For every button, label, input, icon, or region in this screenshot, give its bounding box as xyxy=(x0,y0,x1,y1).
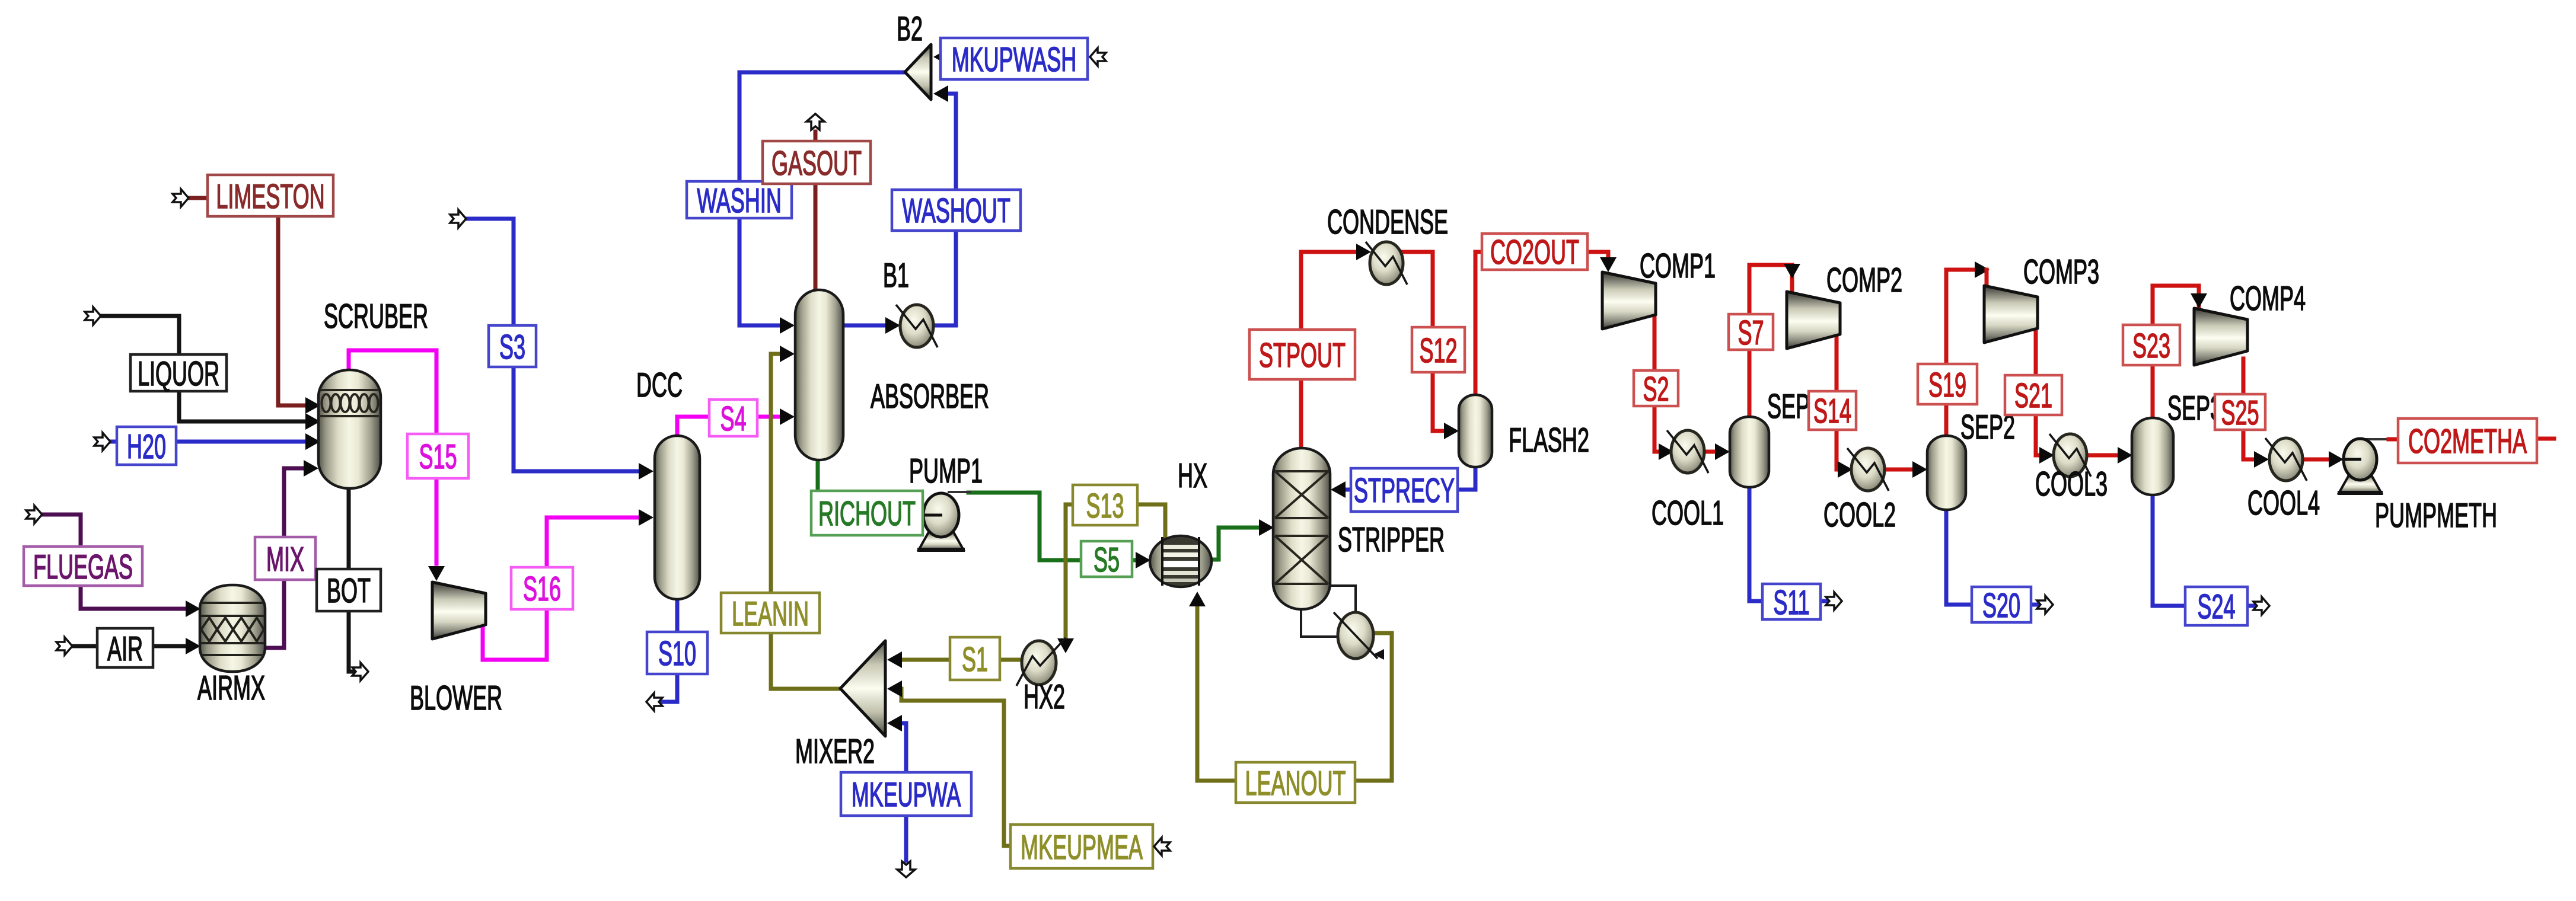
stream label H20 xyxy=(117,427,176,465)
heater COOL1 xyxy=(1667,430,1708,473)
svg-text:S25: S25 xyxy=(2221,395,2259,433)
wire S11 SEP1 bottoms xyxy=(1749,486,1826,601)
wire MKEUPMEA to MIXER2 xyxy=(901,689,1012,846)
wire GASOUT product xyxy=(814,132,818,289)
flash drum FLASH2 xyxy=(1459,395,1492,467)
wire MKUPWASH stub xyxy=(941,56,948,59)
stream label S4 xyxy=(709,400,757,436)
svg-text:S5: S5 xyxy=(1093,542,1120,580)
product arrow BOT xyxy=(352,663,368,680)
stream label S21 xyxy=(2005,375,2062,415)
svg-text:STPRECY: STPRECY xyxy=(1354,472,1455,510)
arrowhead S7 into COMP2 xyxy=(1784,264,1800,279)
stream label S14 xyxy=(1809,391,1856,430)
wire S13 HX to HX2 xyxy=(1066,504,1165,639)
svg-text:B1: B1 xyxy=(883,257,909,295)
svg-text:COOL1: COOL1 xyxy=(1652,495,1724,533)
feed arrow MKEUPWA xyxy=(897,861,915,877)
stream label S10 xyxy=(647,632,707,674)
wire S25 COMP4 to COOL4 xyxy=(2243,359,2253,459)
wire LEANIN MIXER2 to ABSORBER xyxy=(771,354,841,689)
svg-text:DCC: DCC xyxy=(636,367,683,405)
stream label STPRECY xyxy=(1351,468,1458,512)
stream label S12 xyxy=(1412,327,1465,372)
wire S23 SEP3 to COMP4 xyxy=(2153,286,2199,417)
svg-text:S7: S7 xyxy=(1737,315,1764,353)
wire PUMPMETH outlet xyxy=(2360,438,2389,440)
wire AIR to AIRMX xyxy=(74,644,185,648)
feed arrow LIMESTON xyxy=(173,189,189,207)
arrowhead S2 into COOL1 xyxy=(1659,443,1673,460)
arrowhead FLUEGAS inlet xyxy=(186,600,200,617)
column DCC xyxy=(655,436,700,599)
heater B1 xyxy=(896,305,938,347)
svg-text:WASHOUT: WASHOUT xyxy=(902,193,1010,231)
svg-text:AIR: AIR xyxy=(107,631,143,669)
svg-text:S2: S2 xyxy=(1643,371,1669,409)
wire S14 COMP2 to COOL2 xyxy=(1837,332,1842,469)
svg-text:S13: S13 xyxy=(1086,488,1124,526)
stream label S25 xyxy=(2215,394,2265,430)
product arrow S10 xyxy=(646,693,662,711)
feed arrow S3 xyxy=(450,210,466,228)
svg-text:COMP3: COMP3 xyxy=(2023,254,2099,292)
svg-text:AIRMX: AIRMX xyxy=(197,670,265,708)
wire COOL2 to SEP2 xyxy=(1885,468,1912,472)
svg-text:BLOWER: BLOWER xyxy=(410,680,502,718)
feed arrow H20 xyxy=(94,433,110,451)
svg-text:STRIPPER: STRIPPER xyxy=(1338,522,1445,560)
stream label S20 xyxy=(1972,587,2031,622)
heater COOL4 xyxy=(2265,438,2307,481)
separator SEP1 xyxy=(1730,417,1769,487)
stream label LEANOUT xyxy=(1236,762,1355,803)
svg-text:MIX: MIX xyxy=(266,541,304,579)
svg-text:S3: S3 xyxy=(499,329,525,367)
product arrow S24 xyxy=(2253,597,2269,615)
arrowhead into COMP1 xyxy=(1600,257,1617,272)
stream label S15 xyxy=(407,434,468,478)
wire S3 feed to DCC xyxy=(468,219,637,471)
wire H20 to SCRUBER xyxy=(111,440,306,444)
wire PUMP1 outlet shaft xyxy=(949,491,970,493)
svg-text:H20: H20 xyxy=(127,429,166,467)
wire BOT product xyxy=(349,487,353,672)
arrowhead S15 into BLOWER xyxy=(428,566,445,581)
wire MIX AIRMX to SCRUBER xyxy=(265,468,304,648)
svg-text:LEANOUT: LEANOUT xyxy=(1245,765,1346,803)
svg-text:PUMPMETH: PUMPMETH xyxy=(2375,497,2497,535)
stream label LIQUOR xyxy=(130,354,227,391)
arrowhead into SEP1 xyxy=(1715,443,1730,460)
stream label MKUPWASH xyxy=(941,38,1088,79)
svg-text:SCRUBER: SCRUBER xyxy=(324,298,428,336)
wire HX to STRIPPER xyxy=(1212,528,1258,560)
wire S10 product xyxy=(662,598,677,702)
product arrow S20 xyxy=(2037,596,2053,614)
heater COOL3 xyxy=(2049,434,2091,477)
svg-text:S4: S4 xyxy=(720,401,746,439)
column ABSORBER xyxy=(795,290,843,460)
arrowhead S25 into COOL4 xyxy=(2254,451,2269,468)
arrowhead washout into B2 xyxy=(933,85,948,102)
column SCRUBER xyxy=(318,370,381,488)
stream label MIX xyxy=(255,537,315,580)
svg-text:S14: S14 xyxy=(1813,393,1851,431)
wire S24 SEP3 bottoms xyxy=(2153,494,2255,606)
wire S19 jog onto COMP3 xyxy=(1985,270,1989,285)
compressor COMP3 xyxy=(1984,286,2038,343)
stream label S1 xyxy=(950,637,1000,680)
svg-text:CO2METHA: CO2METHA xyxy=(2408,423,2527,461)
svg-text:MIXER2: MIXER2 xyxy=(795,733,875,771)
arrowhead WASHIN inlet xyxy=(780,317,795,334)
wire RICHOUT to PUMP1 xyxy=(818,459,925,513)
heater CONDENSE xyxy=(1366,242,1407,285)
stream label S2 xyxy=(1634,370,1678,406)
arrowhead into CONDENSE xyxy=(1356,244,1371,260)
svg-text:PUMP1: PUMP1 xyxy=(909,453,983,491)
svg-text:S10: S10 xyxy=(658,635,696,673)
stream label RICHOUT xyxy=(811,491,923,535)
compressor BLOWER xyxy=(432,582,486,639)
stream label WASHOUT xyxy=(892,190,1021,231)
stream label S7 xyxy=(1729,314,1773,350)
arrowhead S19 into COMP3 xyxy=(1975,261,1990,278)
wire STPRECY FLASH2 to STRIPPER xyxy=(1346,466,1475,490)
arrowhead MKUPWASH into B2 xyxy=(933,49,948,65)
svg-text:S19: S19 xyxy=(1928,367,1966,405)
svg-text:S11: S11 xyxy=(1773,584,1809,622)
wire LIQUOR to SCRUBER xyxy=(100,316,306,421)
stream label LEANIN xyxy=(721,593,820,633)
stream label S23 xyxy=(2123,325,2180,365)
wire S15 SCRUBER to BLOWER xyxy=(349,350,436,564)
svg-text:COOL4: COOL4 xyxy=(2247,485,2320,523)
wire STRIPPER bottoms to reboiler xyxy=(1301,608,1337,637)
arrowhead LIMESTON inlet xyxy=(305,397,320,414)
svg-text:S23: S23 xyxy=(2132,328,2170,366)
svg-text:MKEUPMEA: MKEUPMEA xyxy=(1021,829,1143,867)
wire LIMESTON to SCRUBER xyxy=(278,216,306,405)
svg-text:S15: S15 xyxy=(419,439,457,477)
svg-text:S16: S16 xyxy=(523,571,561,609)
wire S1 HX2 to MIXER2 xyxy=(901,658,1021,662)
wire LIMESTON feed stub xyxy=(186,196,208,200)
wire S20 SEP2 bottoms xyxy=(1946,509,2038,605)
reboiler of STRIPPER xyxy=(1334,612,1378,659)
stream label CO2METHA xyxy=(2398,418,2537,463)
arrowhead LEANIN inlet xyxy=(780,346,795,362)
arrowhead S14 into COOL2 xyxy=(1838,461,1853,478)
stream label S13 xyxy=(1073,485,1137,525)
pump PUMPMETH xyxy=(2338,439,2383,495)
arrowhead LEANOUT into HX xyxy=(1189,592,1206,606)
product arrow GASOUT xyxy=(806,114,824,130)
arrowhead S4 inlet xyxy=(780,408,795,425)
wire S19 SEP2 to COMP3 xyxy=(1946,270,1977,434)
svg-text:COOL2: COOL2 xyxy=(1823,497,1896,535)
feed arrow LIQUOR xyxy=(85,307,101,325)
arrowhead S12 into FLASH2 xyxy=(1444,423,1459,439)
wire CO2METHA product stub xyxy=(2537,437,2554,441)
heatx HX2 xyxy=(1016,638,1066,686)
wire CO2OUT FLASH2 to COMP1 xyxy=(1475,252,1608,394)
svg-text:B2: B2 xyxy=(897,11,923,49)
stream label MKEUPMEA xyxy=(1010,825,1153,868)
stream label AIR xyxy=(97,628,153,667)
svg-text:HX: HX xyxy=(1178,458,1207,496)
wire COOL3 to SEP3 xyxy=(2087,453,2117,458)
stream label S5 xyxy=(1081,541,1132,577)
arrowhead STPRECY into STRIPPER xyxy=(1331,481,1346,498)
wire LEANOUT reboiler to HX xyxy=(1197,606,1392,781)
stream label LIMESTON xyxy=(208,175,333,216)
wire S5 PUMP1 to HX xyxy=(968,493,1135,560)
svg-text:COMP1: COMP1 xyxy=(1640,248,1716,286)
svg-text:COMP4: COMP4 xyxy=(2230,280,2306,318)
arrowhead S16 inlet xyxy=(639,509,653,526)
arrowhead S23 into COMP4 xyxy=(2191,293,2207,308)
svg-text:S20: S20 xyxy=(1982,587,2020,625)
wire WASHOUT B1 to B2 xyxy=(933,94,956,325)
svg-text:FLUEGAS: FLUEGAS xyxy=(33,549,133,587)
arrowhead into PUMPMETH xyxy=(2329,451,2344,468)
arrowhead reboiler return xyxy=(1373,649,1384,660)
svg-text:LEANIN: LEANIN xyxy=(732,596,809,634)
separator SEP2 xyxy=(1927,436,1966,510)
svg-text:WASHIN: WASHIN xyxy=(697,183,782,221)
arrowhead H20 inlet xyxy=(305,433,320,450)
stream label S11 xyxy=(1762,584,1821,619)
svg-text:MKEUPWA: MKEUPWA xyxy=(852,777,961,814)
svg-text:S24: S24 xyxy=(2197,589,2235,627)
wire MKEUPWA elbow xyxy=(901,721,906,726)
feed arrow MKUPWASH xyxy=(1090,48,1106,66)
stream label WASHIN xyxy=(687,181,792,218)
stream label S3 xyxy=(489,325,536,367)
compressor COMP1 xyxy=(1602,272,1656,329)
product arrow S11 xyxy=(1826,592,1842,610)
stream label S24 xyxy=(2185,587,2247,625)
svg-text:RICHOUT: RICHOUT xyxy=(818,496,916,533)
svg-text:LIMESTON: LIMESTON xyxy=(216,178,324,216)
stream label FLUEGAS xyxy=(24,547,142,586)
arrowhead into SEP2 xyxy=(1912,461,1927,478)
mixer AIRMX xyxy=(200,585,265,672)
arrowhead LIQUOR inlet xyxy=(305,413,320,430)
svg-text:ABSORBER: ABSORBER xyxy=(871,378,989,416)
svg-text:S12: S12 xyxy=(1419,333,1457,370)
arrowhead into SEP3 xyxy=(2118,447,2132,464)
arrowhead S21 into COOL3 xyxy=(2039,447,2054,464)
stream label CO2OUT xyxy=(1482,234,1587,270)
arrowhead S1 into MIXER2 xyxy=(887,651,902,668)
feed arrow MKEUPMEA xyxy=(1154,838,1170,855)
wire S7 SEP1 to COMP2 xyxy=(1749,265,1792,416)
svg-text:CO2OUT: CO2OUT xyxy=(1490,234,1579,272)
svg-text:BOT: BOT xyxy=(327,573,371,611)
pump PUMP1 xyxy=(917,493,965,552)
svg-text:CONDENSE: CONDENSE xyxy=(1327,204,1448,242)
heater COOL2 xyxy=(1847,448,1889,491)
arrowhead into B1 xyxy=(885,317,900,334)
wire STRIPPER to reboiler top xyxy=(1330,586,1356,611)
arrowhead MKEUPWA into MIXER2 xyxy=(887,715,902,731)
wire S12 CONDENSE to FLASH2 xyxy=(1403,252,1443,431)
svg-text:COMP2: COMP2 xyxy=(1826,262,1902,300)
wire COOL4 to PUMPMETH xyxy=(2303,458,2328,462)
arrowhead MIX inlet xyxy=(304,460,318,477)
compressor COMP2 xyxy=(1787,292,1840,349)
stream label GASOUT xyxy=(763,141,871,184)
wire S21 COMP3 to COOL3 xyxy=(2036,330,2040,455)
stream label S19 xyxy=(1918,364,1977,404)
wire S16 BLOWER to DCC xyxy=(483,517,637,660)
arrowhead S5 into HX xyxy=(1136,552,1150,568)
wire MKEUPWA to MIXER2 xyxy=(904,723,908,861)
arrowhead into STRIPPER xyxy=(1259,519,1274,536)
heatx HX shell-and-tube xyxy=(1150,536,1212,587)
wire into CO2METHA xyxy=(2389,437,2399,442)
wire FLUEGAS to AIRMX xyxy=(43,515,185,609)
stream label S16 xyxy=(511,567,573,609)
arrowhead S3 inlet xyxy=(639,463,653,480)
separator SEP3 xyxy=(2132,418,2173,495)
stream label BOT xyxy=(317,569,381,611)
svg-text:GASOUT: GASOUT xyxy=(771,145,862,183)
svg-text:S21: S21 xyxy=(2014,378,2052,416)
svg-text:HX2: HX2 xyxy=(1024,679,1065,717)
stream label MKEUPWA xyxy=(841,772,971,816)
arrowhead MKEUPMEA into MIXER2 xyxy=(887,680,902,697)
column STRIPPER xyxy=(1273,448,1330,609)
compressor COMP4 xyxy=(2194,308,2247,365)
feed arrow AIR xyxy=(56,637,72,655)
mixer B2 xyxy=(905,44,931,100)
wire COOL1 to SEP1 xyxy=(1704,450,1715,454)
svg-text:MKUPWASH: MKUPWASH xyxy=(952,41,1077,79)
mixer MIXER2 xyxy=(840,641,885,736)
svg-text:COOL3: COOL3 xyxy=(2035,466,2108,504)
svg-text:S1: S1 xyxy=(962,641,988,679)
wire STPOUT STRIPPER to CONDENSE xyxy=(1301,252,1356,447)
wire S4 DCC to ABSORBER xyxy=(677,417,779,437)
feed arrow FLUEGAS xyxy=(26,506,42,523)
arrowhead S13 into HX2 xyxy=(1057,638,1074,653)
svg-text:LIQUOR: LIQUOR xyxy=(138,356,219,394)
wire S2 COMP1 to COOL1 xyxy=(1654,316,1659,452)
arrowhead AIR inlet xyxy=(186,638,200,654)
svg-text:STPOUT: STPOUT xyxy=(1259,337,1346,375)
stream label STPOUT xyxy=(1249,330,1355,379)
wire ABSORBER to B1 xyxy=(842,324,885,328)
wire WASHIN B2 to ABSORBER xyxy=(739,72,906,325)
svg-text:FLASH2: FLASH2 xyxy=(1509,422,1589,460)
